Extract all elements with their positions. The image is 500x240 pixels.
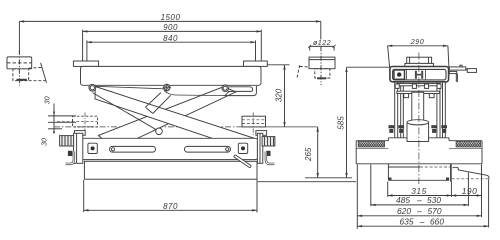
dimension 585 — [336, 67, 390, 178]
side view cylinder — [407, 120, 429, 142]
side view top body — [390, 67, 449, 82]
dimension 870 — [84, 179, 257, 212]
svg-text:290: 290 — [410, 37, 425, 46]
svg-text:1500: 1500 — [161, 13, 181, 22]
inner link bar — [93, 93, 160, 132]
dimension 840 — [87, 34, 256, 66]
svg-text:190: 190 — [462, 186, 477, 196]
dimension 265 — [304, 127, 352, 178]
side view legs (scissor arms end-on) — [395, 82, 446, 138]
side base hatch strip left — [358, 141, 384, 147]
side view mid bolts — [389, 125, 448, 133]
svg-text:30: 30 — [45, 96, 52, 104]
svg-text:900: 900 — [163, 23, 178, 32]
side view flange plate 1 — [395, 83, 441, 88]
base slot right — [185, 146, 231, 152]
wheel bracket right — [256, 131, 275, 164]
svg-text:620–570: 620–570 — [397, 206, 442, 216]
side view flange plate 2 — [397, 91, 440, 98]
platform top pad left — [73, 61, 98, 66]
side view base — [356, 138, 482, 164]
platform (top beam) — [81, 66, 262, 85]
dimension 190 — [451, 186, 481, 196]
scissor arm (left-top to right-bottom) — [95, 87, 253, 150]
center pivot circle — [156, 128, 163, 135]
release lever (front view) — [235, 156, 249, 166]
hydraulic cylinder links — [145, 93, 170, 114]
base skirt — [84, 161, 257, 179]
svg-text:320: 320 — [275, 88, 284, 102]
side dim extension lines — [357, 165, 488, 229]
dimension 1500 — [19, 13, 320, 53]
side view centerline — [418, 53, 420, 185]
side view recess box — [388, 164, 451, 182]
floor line (dash-dot) — [54, 126, 266, 128]
svg-text:ø122: ø122 — [313, 38, 331, 47]
pivot circle left — [89, 84, 96, 91]
floor leader to right dims — [266, 126, 318, 128]
wheel bracket left — [60, 131, 86, 164]
side view handle socket — [449, 65, 476, 82]
dimension 30 (upper) — [45, 96, 77, 133]
scissor arm (right-top to left-bottom) — [98, 87, 236, 150]
platform top pad right — [244, 61, 268, 66]
side base hatch strip right — [456, 141, 480, 147]
svg-text:635–660: 635–660 — [400, 217, 445, 227]
lowered pad right (hidden position) — [242, 113, 266, 136]
ground line between views — [258, 181, 356, 183]
svg-text:30: 30 — [42, 138, 49, 146]
base rail — [81, 138, 258, 159]
svg-text:585: 585 — [336, 116, 345, 130]
dimension 315 — [388, 186, 452, 196]
lowered pad left (hidden position) — [57, 113, 98, 132]
top-center pin with cross — [163, 83, 171, 91]
base slot left — [110, 146, 156, 152]
base rail pin block right — [238, 143, 247, 153]
dimension 290 — [388, 37, 449, 67]
pivot circle right — [222, 85, 229, 92]
svg-text:840: 840 — [163, 34, 178, 43]
svg-text:485–530: 485–530 — [396, 195, 441, 205]
handle tube at platform right end — [225, 86, 257, 96]
side view release lever — [452, 167, 489, 179]
base rail pin block left — [88, 143, 97, 153]
dimension 635-660 — [357, 217, 488, 227]
svg-text:265: 265 — [304, 147, 313, 162]
dimension 900 — [83, 23, 262, 66]
detached pad o122 (right, exploded view) — [297, 38, 336, 85]
dimension 485-530 — [371, 195, 469, 205]
dimension 620-570 — [357, 206, 481, 216]
detached rubber pad (left, exploded view) — [7, 50, 47, 86]
base inner ledge lines — [356, 147, 388, 149]
dimension 320 — [268, 65, 290, 127]
side view piston rod — [412, 92, 424, 120]
svg-text:870: 870 — [163, 202, 178, 211]
side view top pad — [405, 57, 434, 66]
pull rod to handle — [96, 86, 164, 89]
